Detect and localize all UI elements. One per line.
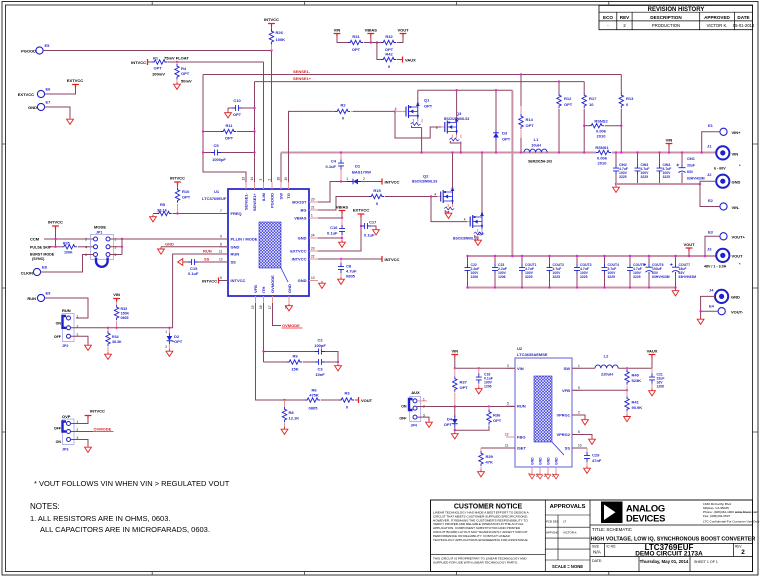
inductor L1 10uH SER2915H-103 [524, 137, 552, 164]
svg-text:VIN: VIN [451, 349, 458, 354]
wire VFB pin 15 column [256, 303, 306, 400]
zener D2 OPT [165, 328, 183, 349]
svg-text:OFF: OFF [54, 427, 62, 431]
U2 pin VPRG1 2 [556, 411, 581, 418]
svg-text:VICTOR K.: VICTOR K. [707, 23, 728, 28]
svg-text:R34: R34 [112, 335, 119, 339]
wire SENSE1+ column to pin 14 [254, 82, 256, 182]
U1 bottom pin VFB 15 [251, 285, 258, 309]
wire PGOOD net E5 to R26/pin2 [43, 50, 271, 52]
svg-text:JP3: JP3 [62, 448, 68, 452]
wire VPRG2 to ground [572, 435, 592, 438]
svg-text:C16: C16 [330, 225, 338, 230]
svg-text:VOUT+: VOUT+ [732, 235, 746, 240]
svg-text:475K: 475K [309, 393, 319, 398]
svg-text:E6: E6 [46, 87, 52, 92]
node J2/rail [699, 183, 701, 185]
wire Q3 source to SW bus [460, 142, 462, 153]
svg-text:R5: R5 [160, 202, 166, 207]
svg-text:PCB DES: PCB DES [546, 520, 559, 524]
svg-text:E2: E2 [708, 198, 714, 203]
svg-text:ECO: ECO [603, 15, 613, 20]
svg-text:10: 10 [311, 276, 315, 280]
wire ITH pin 16 column [263, 303, 265, 362]
svg-text:ITH: ITH [261, 286, 266, 293]
ground at VPRG1 [582, 418, 589, 425]
node D4/R36 bottom [454, 429, 456, 431]
svg-text:GND: GND [28, 105, 37, 110]
svg-text:OVMODE: OVMODE [270, 275, 275, 293]
svg-text:OPT: OPT [444, 422, 453, 427]
transistor Q2 BSC028N06LS3 [412, 174, 455, 213]
svg-text:VAUX: VAUX [647, 349, 658, 354]
turret E5 PGOOD [21, 43, 50, 54]
svg-text:6 - 60V: 6 - 60V [714, 167, 726, 171]
capacitor COUT6 100uF 63V electrolytic [644, 256, 670, 288]
svg-text:PGOOD: PGOOD [21, 49, 36, 54]
svg-text:38.1k: 38.1k [157, 208, 168, 213]
wire J4 to ground column [701, 296, 715, 317]
svg-text:1: 1 [311, 214, 313, 218]
svg-text:E9: E9 [46, 291, 52, 296]
wire VPRG1 to ground [572, 415, 585, 418]
svg-text:5: 5 [220, 276, 222, 280]
wire BG pin to R15 [318, 197, 369, 211]
node VBIAS/R31 [370, 41, 372, 43]
U1 top pin ILIM 3 [259, 179, 266, 202]
resistor R42 0 [377, 43, 402, 70]
wire gate branch to Q3 [395, 111, 441, 138]
power port INTVCC at pin 22 [382, 256, 400, 262]
svg-text:R39: R39 [486, 454, 494, 459]
power flag VIN at R33 [113, 292, 120, 302]
svg-text:R32: R32 [385, 34, 393, 39]
node R14/SENSE1- [520, 73, 522, 75]
ground at C17 [373, 228, 380, 235]
power flag VIN at U2 [451, 349, 458, 369]
svg-text:38.3K: 38.3K [112, 340, 122, 344]
wire COUT ground rail [468, 287, 676, 289]
svg-text:R14: R14 [526, 117, 534, 122]
power flag VIN top [334, 28, 341, 37]
node Q1 source/bus [420, 151, 422, 153]
svg-text:GND: GND [731, 295, 740, 300]
node ITH/C2 [262, 350, 264, 352]
U2 pin FBO 12 [505, 433, 525, 440]
wire E6 to EXTVCC flag [45, 88, 76, 95]
ground at C3 [335, 364, 342, 371]
svg-text:J4: J4 [709, 288, 714, 293]
U2 pin VPRG2 6 [556, 430, 581, 437]
ground at C10 [225, 111, 232, 118]
svg-text:75mV FLOAT: 75mV FLOAT [164, 56, 189, 61]
svg-text:22: 22 [311, 255, 315, 259]
svg-text:J1: J1 [707, 144, 712, 149]
svg-text:GND: GND [539, 457, 543, 465]
power flag INTVCC at JP1 [48, 220, 63, 230]
node C5 left [202, 151, 204, 153]
node R17/bus [583, 151, 585, 153]
svg-text:47K: 47K [486, 460, 493, 465]
U1 left pin SS 12 [219, 258, 236, 265]
resistor R6 475K 0805 [305, 388, 339, 411]
title block [431, 500, 760, 572]
svg-text:GND: GND [531, 457, 535, 465]
ground at D4 [451, 432, 458, 439]
node R14/SW bus [520, 151, 522, 153]
svg-text:R31: R31 [352, 34, 360, 39]
svg-text:OPT: OPT [154, 66, 163, 71]
svg-text:VIN: VIN [517, 366, 524, 371]
svg-text:OFF: OFF [54, 335, 62, 339]
node VIN/C18 [478, 367, 480, 369]
svg-text:17: 17 [268, 305, 272, 309]
resistor R32 OPT [371, 34, 403, 52]
power flag EXTVCC at C17 [353, 208, 369, 218]
svg-text:EXTVCC: EXTVCC [290, 249, 306, 254]
svg-text:APPROVED: APPROVED [704, 15, 730, 20]
resistor R11 OPT [203, 123, 255, 141]
wire Q1 source to SW bus [421, 128, 423, 153]
svg-text:R36: R36 [493, 413, 501, 418]
jack J4 GND [709, 288, 740, 304]
turret E1 VIN+ [708, 123, 741, 135]
svg-text:L1: L1 [534, 137, 539, 142]
svg-text:GND: GND [287, 284, 292, 293]
svg-text:21: 21 [311, 206, 315, 210]
svg-text:VICTOR K.: VICTOR K. [563, 531, 578, 535]
svg-text:OPT: OPT [493, 418, 502, 423]
svg-text:E7: E7 [46, 100, 52, 105]
U1 left pin FREQ 7 [219, 209, 242, 216]
svg-text:4: 4 [436, 126, 438, 130]
svg-text:INTVCC: INTVCC [170, 176, 185, 181]
wire U2 VIN row [455, 367, 515, 369]
svg-text:INTVCC: INTVCC [90, 409, 105, 414]
U1 left pin INTVCC 5 [219, 276, 246, 283]
wire Q1 gate stub [395, 110, 401, 112]
svg-text:R9: R9 [292, 354, 298, 359]
svg-text:VOUT: VOUT [683, 242, 695, 247]
wire VOUT rail vertical [511, 90, 513, 256]
svg-text:3225: 3225 [663, 175, 671, 179]
svg-text:ON: ON [56, 440, 62, 444]
resistor R39 47K at ISET [479, 448, 515, 470]
svg-text:13: 13 [242, 177, 246, 181]
resistor R26 100K [269, 27, 285, 51]
turret E4 VOUT- [709, 304, 744, 315]
net label OVMODE at pin17 [282, 323, 303, 328]
svg-text:18: 18 [277, 177, 281, 181]
node L2/R40 [626, 367, 628, 369]
op-amp U1 LTC3769EUF controller IC body [202, 189, 309, 296]
U1 left pin PLLIN/MODE 9 [219, 235, 258, 242]
svg-text:L2: L2 [604, 354, 609, 359]
svg-text:VIN-: VIN- [732, 205, 741, 210]
U1 left pin RUN 11 [219, 250, 239, 257]
capacitor C3 15nF [315, 359, 338, 377]
svg-text:RUN: RUN [27, 296, 36, 301]
svg-text:INTVCC: INTVCC [202, 279, 217, 284]
ground at Q4 source [475, 238, 482, 245]
svg-text:63V: 63V [687, 170, 694, 174]
turret E8 CLKIN [21, 265, 48, 276]
svg-text:100pF: 100pF [314, 343, 326, 348]
turret E6 EXTVCC [18, 87, 51, 98]
svg-text:63HVH33M: 63HVH33M [687, 177, 705, 181]
U1 right pin BOOST 20 [292, 198, 318, 205]
svg-text:2: 2 [578, 411, 580, 415]
jumper JP2 RUN 1x3 header [54, 308, 79, 348]
svg-text:15K: 15K [291, 367, 298, 372]
svg-text:R17: R17 [589, 96, 597, 101]
svg-text:10uH: 10uH [531, 143, 541, 148]
inductor L2 220uH [572, 354, 652, 377]
svg-text:R3: R3 [344, 391, 350, 396]
svg-text:OFF: OFF [399, 417, 407, 421]
svg-text:D1: D1 [355, 164, 361, 169]
wire TG pin gate drive [289, 111, 336, 182]
svg-text:VFB: VFB [562, 388, 570, 393]
svg-text:EXTVCC: EXTVCC [67, 78, 83, 83]
svg-text:C5: C5 [213, 143, 219, 148]
svg-text:R35: R35 [63, 241, 70, 245]
wire U2 VFB row [572, 389, 627, 391]
svg-text:C2: C2 [317, 338, 323, 343]
svg-text:23: 23 [311, 247, 315, 251]
svg-text:OPT: OPT [352, 47, 361, 52]
jack J1 VIN [707, 144, 741, 171]
net label OVMODE [93, 427, 114, 432]
svg-text:OPT: OPT [174, 339, 183, 344]
svg-text:SENSE1+: SENSE1+ [293, 76, 312, 81]
node FREQ/R10 [176, 212, 178, 214]
ground at R41 [624, 414, 631, 421]
capacitor C21 22uF 16V 1206 [649, 368, 664, 388]
svg-text:OPT: OPT [181, 71, 190, 76]
svg-text:SW: SW [279, 193, 284, 200]
svg-text:ON: ON [401, 405, 407, 409]
svg-text:OPT: OPT [424, 104, 433, 109]
revision history table [599, 5, 755, 29]
U1 top pin SW 18 [277, 177, 284, 200]
capacitor COUT1 4.7uF 100V 3225 [519, 256, 537, 288]
svg-text:SENSE1-: SENSE1- [244, 192, 249, 210]
svg-text:APPROVALS: APPROVALS [550, 504, 586, 510]
svg-text:GND: GND [555, 457, 559, 465]
resistor R2 0 [335, 103, 395, 121]
svg-text:R41: R41 [632, 400, 640, 405]
resistor R8 12.1K [282, 400, 299, 427]
node PGOOD junction [270, 49, 272, 51]
svg-text:OVMODE: OVMODE [94, 427, 112, 432]
svg-text:OVP: OVP [62, 414, 71, 419]
label BURST MODE (SYNC) [30, 253, 55, 261]
ground at C15 [178, 259, 185, 266]
wire E1 to bus [702, 132, 720, 153]
svg-text:4: 4 [395, 107, 397, 111]
svg-text:47nF: 47nF [592, 458, 602, 463]
U1 bottom pin OVMODE 17 [268, 275, 275, 309]
svg-text:R40: R40 [632, 373, 640, 378]
power flag INTVCC at R10 [170, 176, 185, 186]
svg-text:FBO: FBO [517, 435, 525, 440]
wire JP2 pin 3 to ground [71, 336, 89, 343]
svg-text:1206: 1206 [657, 385, 665, 389]
svg-text:D3: D3 [502, 131, 508, 136]
ground at D2 [166, 349, 173, 356]
svg-text:DEVICES: DEVICES [626, 513, 665, 524]
wire CIN ground rail [616, 183, 700, 185]
op-amp U2 LTC3639AEMSE body [515, 346, 572, 467]
svg-text:2: 2 [268, 179, 272, 181]
capacitor C2 100pF [264, 338, 339, 363]
wire E2 to rail [700, 184, 720, 207]
svg-text:R2: R2 [340, 103, 346, 108]
node C2/C3 ground join [337, 361, 339, 363]
svg-text:C3: C3 [317, 367, 323, 372]
svg-text:AUX: AUX [411, 390, 420, 395]
node C16/pin24 [341, 237, 343, 239]
svg-text:0805: 0805 [346, 274, 356, 279]
svg-text:RSNS2: RSNS2 [594, 118, 608, 123]
svg-text:R33: R33 [121, 307, 128, 311]
svg-text:VIN+: VIN+ [732, 130, 742, 135]
svg-text:VPRG1: VPRG1 [556, 413, 570, 418]
svg-text:HIGH VOLTAGE, LOW IQ, SYNCHRON: HIGH VOLTAGE, LOW IQ, SYNCHRONOUS BOOST … [591, 537, 756, 543]
svg-text:INTVCC: INTVCC [48, 220, 63, 225]
svg-text:TECHNOLOGY APPLICATIONS ENGINE: TECHNOLOGY APPLICATIONS ENGINEERING FOR … [433, 538, 529, 542]
svg-text:63HVH33M: 63HVH33M [652, 275, 670, 279]
svg-text:0.1uF: 0.1uF [364, 233, 375, 238]
svg-text:VOUT: VOUT [361, 398, 373, 403]
wire JP1 right pins common [110, 239, 122, 255]
capacitor C23 2.2uF 100V 1206 [492, 256, 507, 288]
svg-text:100K: 100K [64, 250, 73, 254]
svg-text:3225: 3225 [608, 275, 616, 279]
resistor R1 OPT 100mV 75mV FLOAT [148, 56, 189, 77]
svg-text:11: 11 [505, 444, 509, 448]
power flag EXTVCC at E6 [67, 78, 83, 88]
ground at R5 [150, 215, 157, 222]
svg-text:7: 7 [220, 209, 222, 213]
svg-text:4: 4 [85, 245, 87, 249]
resistor R4 OPT 50mV [175, 62, 192, 84]
svg-text:EXTVCC: EXTVCC [18, 92, 34, 97]
svg-text:OPT: OPT [526, 123, 535, 128]
ground at J4/E4 [697, 317, 704, 324]
svg-text:9: 9 [220, 235, 222, 239]
svg-text:VIN: VIN [113, 292, 120, 297]
node JP1 common top [121, 238, 123, 240]
svg-text:Thursday, May 01, 2014: Thursday, May 01, 2014 [640, 559, 689, 564]
svg-text:R12: R12 [564, 96, 572, 101]
node R33/RUN row [115, 327, 117, 329]
svg-text:19: 19 [284, 177, 288, 181]
svg-text:U1: U1 [214, 189, 220, 194]
node R13/bus [620, 151, 622, 153]
wire VBIAS pin 1 [318, 217, 342, 219]
wire SENSE1+ net long line [255, 81, 585, 83]
svg-text:LTC3769EUF: LTC3769EUF [202, 196, 227, 201]
resistor RSNS1 0.006 2010 [595, 145, 611, 166]
svg-text:3225: 3225 [525, 275, 533, 279]
power port INTVCC at D1 [382, 179, 400, 185]
svg-text:DESCRIPTION: DESCRIPTION [650, 15, 682, 20]
transistor Q1 OPT [395, 98, 433, 128]
svg-text:J3: J3 [707, 247, 712, 252]
svg-text:1206: 1206 [471, 275, 479, 279]
svg-text:JP2: JP2 [62, 344, 68, 348]
capacitor C17 0.1uF [361, 220, 377, 238]
U1 top pin SENSE1+ 14 [250, 177, 257, 211]
svg-text:3225: 3225 [641, 175, 649, 179]
ground at C21 [649, 389, 656, 396]
svg-text:1: 1 [165, 330, 167, 334]
svg-text:D4: D4 [447, 417, 453, 422]
capacitor CIN1 33uF 63V electrolytic [677, 153, 705, 185]
ground at U1 pin 10 [319, 281, 326, 288]
node R35/INTVCC [54, 246, 56, 248]
ground at U1 pin 8 [158, 247, 165, 254]
ground at CIN rail [613, 185, 620, 192]
svg-text:15: 15 [251, 305, 255, 309]
node VBIAS/C16 [341, 217, 343, 219]
ground at COUT rail [672, 289, 679, 296]
svg-text:VOUT-: VOUT- [731, 310, 744, 315]
svg-text:DEMO CIRCUIT 2173A: DEMO CIRCUIT 2173A [635, 551, 703, 558]
resistor R12 OPT [557, 82, 573, 153]
ground at R39 [478, 470, 485, 477]
U1 top pin PGOOD 2 [268, 179, 275, 208]
ground at JP2 pin 3 [85, 343, 92, 350]
capacitor C22 2.2uF 100V 1206 [465, 256, 480, 288]
svg-text:E4: E4 [709, 304, 715, 309]
svg-text:VBIAS: VBIAS [294, 216, 307, 221]
svg-text:INTVCC: INTVCC [131, 60, 146, 65]
node R17/RSNS2 [583, 125, 585, 127]
svg-text:RUN: RUN [231, 252, 240, 257]
svg-text:DATE:: DATE: [592, 559, 602, 563]
svg-text:3225: 3225 [553, 275, 561, 279]
resistor R10 OPT [175, 185, 190, 214]
svg-text:TITLE: SCHEMATIC: TITLE: SCHEMATIC [592, 527, 632, 532]
svg-text:63HVH33M: 63HVH33M [679, 275, 697, 279]
svg-text:JP4: JP4 [411, 424, 417, 428]
U1 right pin INTVCC 22 [292, 255, 318, 262]
wire JP3 pin2 OVMODE [71, 431, 94, 433]
svg-text:SER2915H-103: SER2915H-103 [528, 160, 552, 164]
wire JP3 pin3 to ground [71, 440, 89, 446]
wire JP2 pin 2 RUN row [71, 254, 229, 328]
svg-text:R11: R11 [225, 123, 233, 128]
svg-text:INTVCC: INTVCC [264, 17, 279, 22]
node E1/bus [701, 151, 703, 153]
node VIN/R37 [454, 367, 456, 369]
svg-text:15nF: 15nF [315, 372, 325, 377]
svg-text:DATE: DATE [737, 15, 749, 20]
svg-text:LT: LT [563, 520, 566, 524]
svg-text:OVMODE: OVMODE [282, 323, 300, 328]
node C5 right [253, 151, 255, 153]
node E4/J4 [699, 310, 701, 312]
wire J2 to CIN rail [700, 181, 716, 184]
node VIN flag/bus [668, 151, 670, 153]
svg-text:6: 6 [578, 430, 580, 434]
capacitor C4 0.1uF [326, 153, 344, 182]
resistor R31 OPT [337, 34, 371, 52]
svg-text:GND: GND [547, 457, 551, 465]
